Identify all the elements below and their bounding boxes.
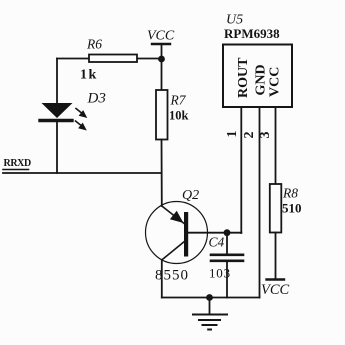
- svg-text:RRXD: RRXD: [4, 158, 31, 169]
- node junction dot (base/C4/pin1): [224, 229, 231, 236]
- svg-text:GND: GND: [254, 64, 269, 95]
- power VCC (top): [152, 44, 170, 59]
- transistor Q2 (PNP 8550): [146, 202, 208, 264]
- wire R7 bottom to Q2: [161, 140, 163, 207]
- wire R6 left lead: [57, 58, 89, 60]
- wire from R6 down to D3: [56, 59, 58, 104]
- wire U5 pin 3: [275, 107, 277, 184]
- resistor R8: [270, 184, 282, 233]
- wire Q2 base to U5 pin1: [188, 232, 241, 234]
- wire Q2 collector down: [161, 260, 163, 298]
- wire VCC node down to R7: [161, 59, 163, 90]
- node junction dot (ground): [206, 294, 213, 301]
- svg-text:1: 1: [225, 131, 240, 138]
- ground: [193, 298, 227, 330]
- D3 arrow 1: [76, 109, 87, 119]
- node junction dot (VCC/R6/R7): [158, 56, 165, 63]
- svg-text:VCC: VCC: [261, 282, 290, 298]
- wire U5 pin 1: [240, 107, 242, 233]
- svg-text:RPM6938: RPM6938: [224, 26, 280, 41]
- svg-text:103: 103: [209, 266, 231, 281]
- svg-text:D3: D3: [87, 91, 106, 107]
- svg-text:3: 3: [258, 132, 273, 139]
- svg-text:R6: R6: [86, 37, 102, 52]
- wire D3 cathode down to RRXD rail: [56, 122, 58, 173]
- wire bottom rail: [162, 297, 260, 299]
- svg-text:1k: 1k: [80, 68, 98, 83]
- capacitor C4: [211, 233, 243, 298]
- svg-text:10k: 10k: [169, 109, 189, 123]
- svg-text:R7: R7: [170, 93, 187, 108]
- svg-text:ROUT: ROUT: [236, 57, 251, 98]
- svg-text:510: 510: [282, 201, 302, 216]
- resistor R7: [156, 90, 168, 140]
- wire U5 pin 2: [259, 107, 261, 298]
- svg-text:8550: 8550: [155, 268, 189, 284]
- wire R8 bottom lead: [275, 233, 277, 280]
- svg-text:R8: R8: [282, 186, 298, 201]
- svg-text:2: 2: [242, 132, 257, 139]
- svg-text:C4: C4: [209, 235, 225, 250]
- wire R6 right lead: [137, 58, 162, 60]
- resistor R6: [89, 55, 137, 63]
- D3 arrow 2: [76, 121, 87, 131]
- svg-text:VCC: VCC: [147, 29, 175, 44]
- diode D3 (LED): [40, 103, 73, 121]
- svg-text:Q2: Q2: [182, 188, 199, 203]
- svg-text:VCC: VCC: [268, 67, 283, 97]
- IC U5 RPM6938: [223, 45, 292, 108]
- wire RRXD horizontal: [3, 172, 162, 174]
- power VCC (bottom): [267, 278, 285, 280]
- wire RRXD underline: [3, 169, 29, 171]
